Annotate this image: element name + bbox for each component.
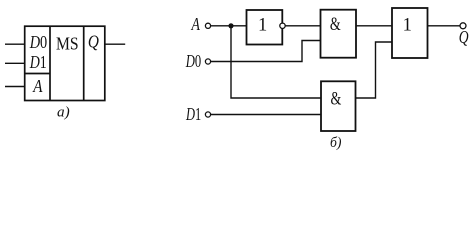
svg-text:&: & xyxy=(330,15,341,35)
svg-text:1: 1 xyxy=(258,16,267,36)
wire mux input A xyxy=(5,86,25,88)
inverter U2 (NOT gate "1") xyxy=(247,10,283,45)
wire AND1 output to OR input 1 xyxy=(356,25,392,27)
wire mux output Q xyxy=(105,43,125,45)
node Q (output terminal) xyxy=(459,23,469,47)
svg-text:&: & xyxy=(331,89,342,109)
svg-text:D1: D1 xyxy=(29,52,47,72)
OR gate U5 ("1") xyxy=(392,8,428,58)
wire AND2 output to OR input 2 xyxy=(356,42,393,98)
svg-text:A: A xyxy=(32,76,42,96)
wire D0 to AND1 input 2 xyxy=(211,41,321,62)
svg-text:1: 1 xyxy=(403,16,412,36)
wire A to inverter xyxy=(211,25,247,27)
svg-text:б): б) xyxy=(330,135,342,151)
svg-text:A: A xyxy=(191,14,200,34)
junction on wire A xyxy=(228,23,233,28)
svg-text:а): а) xyxy=(57,104,70,120)
node D1 (input terminal) xyxy=(185,104,210,124)
wire mux input D1 xyxy=(5,62,25,64)
svg-text:D0: D0 xyxy=(29,32,48,52)
svg-text:Q: Q xyxy=(459,27,469,47)
inversion bubble on U2 output xyxy=(280,23,285,28)
svg-text:D1: D1 xyxy=(185,104,201,124)
AND gate U4 (bottom "&") xyxy=(321,81,356,131)
wire D1 to AND2 input 2 xyxy=(211,114,321,116)
wire mux input D0 xyxy=(5,43,25,45)
svg-text:Q: Q xyxy=(88,31,99,51)
AND gate U3 (top "&") xyxy=(321,10,357,58)
svg-text:MS: MS xyxy=(56,34,79,54)
node D0 (input terminal) xyxy=(185,51,211,71)
svg-text:D0: D0 xyxy=(185,51,201,71)
node A (input terminal, diagram b) xyxy=(191,14,211,34)
multiplexer U1 (MS block, diagram a) xyxy=(25,26,105,100)
wire A branch down to AND2 xyxy=(231,26,321,98)
wire OR output to Q xyxy=(428,25,461,27)
wire inverter to AND1 input 1 xyxy=(285,25,320,27)
